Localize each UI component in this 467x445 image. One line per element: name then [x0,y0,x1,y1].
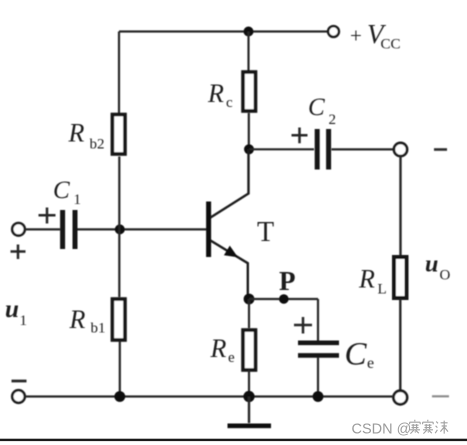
terminal input bottom [12,390,25,403]
capacitor C2 [317,129,328,170]
capacitor Ce [298,343,339,356]
svg-text:C: C [53,177,70,204]
wire collector node to C2 [249,148,314,150]
svg-text:2: 2 [329,112,337,128]
label Re [210,334,236,366]
label RL [358,265,387,298]
watermark char han2 [423,420,434,434]
wire Vcc to Rc [247,32,249,72]
wire Rc to collector node [248,113,250,149]
wire input to C1 [25,228,60,230]
svg-text:c: c [226,95,233,111]
wire Ce branch vertical top [317,299,319,341]
polarity + of C1 [39,208,56,224]
svg-text:+: + [350,24,362,48]
node bottom Ce junction [313,391,324,402]
resistor Rb1 [112,299,125,340]
svg-text:R: R [69,305,86,334]
svg-text:b1: b1 [91,321,106,337]
polarity + of Ce [294,317,312,334]
wire C1 to base [78,228,207,230]
label Rc [207,79,233,111]
resistor Rc [243,72,256,111]
svg-text:e: e [228,350,235,366]
node base junction [115,224,125,234]
svg-text:u: u [5,296,19,323]
terminal output top [394,143,407,156]
ground [228,397,272,426]
svg-text:u: u [425,252,438,278]
node emitter junction [244,294,255,305]
svg-text:CC: CC [381,37,401,53]
svg-text:L: L [378,282,387,298]
svg-text:CSDN @: CSDN @ [352,422,412,438]
watermark char mo [435,421,448,434]
node bottom left junction [114,391,125,402]
label Rb2 [68,119,105,153]
svg-text:P: P [279,266,296,296]
svg-text:T: T [257,217,274,248]
node top junction [244,27,254,37]
svg-text:R: R [207,79,224,108]
wire emitter to Re [248,299,250,328]
watermark CSDN [352,420,449,438]
label uO [425,252,451,284]
watermark char han1 [410,420,421,434]
wire emitter row to Ce [249,298,318,300]
svg-text:e: e [367,355,374,372]
polarity + of C2 [292,128,308,144]
wire output vertical [399,156,401,256]
polarity + below input terminal [11,245,26,260]
capacitor C1 [63,210,75,249]
transistor T base bar [206,202,211,258]
svg-text:1: 1 [20,313,28,329]
wire Ce to bottom rail [317,358,319,397]
label minus above input bottom terminal [12,380,27,383]
wire Rb1 to bottom rail [119,341,121,397]
terminal output bottom [394,391,408,405]
bottom frame line [0,439,467,441]
label C2 [308,94,336,128]
wire bottom rail [25,395,394,397]
wire top rail [119,32,328,114]
wire C2 to output terminal [332,148,395,150]
svg-text:R: R [210,334,227,363]
svg-text:R: R [68,119,85,148]
label +Vcc [350,19,401,53]
wire Re to bottom rail [248,370,250,397]
svg-text:b2: b2 [90,137,105,153]
transistor T collector lead [211,149,249,217]
terminal input top [12,223,25,236]
label C1 [53,177,81,208]
wire RL to bottom terminal [399,299,401,391]
node bottom emitter junction [243,391,254,402]
label minus at output bottom [432,395,449,397]
svg-text:O: O [440,268,451,284]
resistor RL [394,257,407,298]
svg-text:C: C [345,337,368,373]
node P [279,294,289,304]
svg-text:C: C [308,94,325,121]
node collector junction [244,144,254,154]
terminal +Vcc [328,26,339,37]
resistor Re [243,330,256,370]
transistor T emitter lead with arrow [211,241,248,300]
label Ce [345,337,375,373]
svg-text:1: 1 [74,192,82,208]
label u1 [5,296,27,329]
label Rb1 [69,305,106,337]
resistor Rb2 [112,115,125,155]
label minus at output top [434,148,447,151]
wire Rb2 to Rb1 [118,157,120,298]
svg-text:R: R [358,265,375,294]
